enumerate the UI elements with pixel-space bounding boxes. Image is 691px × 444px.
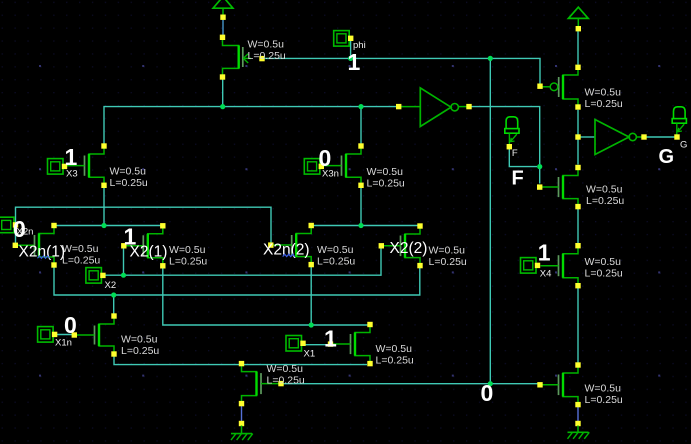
ground (right rail) <box>568 421 590 439</box>
svg-text:L=0.25u: L=0.25u <box>267 374 305 386</box>
svg-text:0: 0 <box>481 380 494 406</box>
wire X1 gate stub <box>306 344 331 346</box>
wire right rail NMOS3 to NMOS4 <box>577 288 579 363</box>
svg-text:W=0.5u: W=0.5u <box>585 382 622 394</box>
wire right rail PMOS drain to NMOS <box>577 110 579 165</box>
svg-text:L=0.25u: L=0.25u <box>429 256 467 268</box>
value label W/L of X2(1) <box>169 244 207 267</box>
svg-text:W=0.5u: W=0.5u <box>367 166 404 178</box>
wire X3 source down to row2 node <box>103 188 105 226</box>
wire X1n drain drop from output rail <box>113 295 115 314</box>
wire X1n gate stub <box>57 334 74 336</box>
svg-text:L=0.25u: L=0.25u <box>248 50 286 62</box>
svg-text:W=0.5u: W=0.5u <box>169 244 206 256</box>
probe F (LED) <box>505 117 519 150</box>
wire phi-bar vertical (node 0) <box>489 58 491 383</box>
power VDD right <box>568 7 588 31</box>
transistor X2n(2) body <box>268 223 314 267</box>
wire inverter U2 output to G probe <box>647 136 675 138</box>
svg-text:X4: X4 <box>540 268 552 279</box>
transistor X2n(1) body <box>13 223 57 268</box>
junction phi wire / phi-bar vertical <box>488 56 493 61</box>
wire phi gate wire (PMOS arrow gate to right column) <box>264 58 540 83</box>
junction row2 / X3 source <box>101 223 106 228</box>
value label W/L of N-X3n <box>367 166 405 190</box>
transistor P1 (phi PMOS) body <box>220 35 265 80</box>
value label W/L of N-X1n <box>121 334 159 358</box>
svg-text:W=0.5u: W=0.5u <box>317 244 354 256</box>
value label W/L of X2n(1) <box>62 243 100 266</box>
transistor N-X3 body <box>65 143 107 188</box>
wire X2n net rail <box>16 207 272 245</box>
svg-text:L=0.25u: L=0.25u <box>376 354 414 366</box>
wire right rail NMOS2 to NMOS3 <box>577 209 579 243</box>
svg-text:W=0.5u: W=0.5u <box>110 165 147 177</box>
junction phi wire tap <box>348 56 353 61</box>
value label W/L of N-X1 <box>376 343 414 367</box>
svg-text:X3: X3 <box>66 169 78 180</box>
transistor N3 (X4) body <box>541 243 581 288</box>
port phi <box>334 31 354 46</box>
svg-text:0: 0 <box>13 216 26 242</box>
pin pad: inverter U2 output <box>641 134 646 139</box>
port X3 <box>48 159 68 175</box>
svg-text:L=0.25u: L=0.25u <box>121 345 159 357</box>
junction X2 rail / X2(1) gate <box>121 273 126 278</box>
junction clock rail / phi-bar vertical <box>488 381 493 386</box>
svg-text:L=0.25u: L=0.25u <box>317 255 355 267</box>
svg-text:W=0.5u: W=0.5u <box>585 256 622 268</box>
svg-text:W=0.5u: W=0.5u <box>586 183 623 195</box>
value label W/L of X2(2) <box>429 244 467 267</box>
junction F probe / U1 output wire <box>537 164 542 169</box>
svg-text:W=0.5u: W=0.5u <box>376 343 413 355</box>
highlight squiggle under X2n(2) <box>283 254 295 256</box>
junction node A / PMOS drain <box>220 104 225 109</box>
ground (clock NMOS) <box>231 421 253 440</box>
port X1 <box>286 336 306 352</box>
svg-text:W=0.5u: W=0.5u <box>248 38 285 50</box>
wire X2n(2) source down <box>310 267 312 325</box>
value label W/L of P1 <box>248 38 286 62</box>
wire VDD-left stem to PMOS source <box>222 20 224 36</box>
svg-text:L=0.25u: L=0.25u <box>367 177 405 189</box>
svg-text:L=0.25u: L=0.25u <box>110 177 148 189</box>
svg-text:0: 0 <box>319 145 332 171</box>
inverter U2 <box>595 120 636 155</box>
wire row2 node left (X2n(1) to X2(1)) <box>54 225 163 227</box>
wire node A horizontal (X3/X3n drains to inverter input) <box>104 107 399 144</box>
svg-text:W=0.5u: W=0.5u <box>121 334 158 346</box>
transistor N2 (F gate) body <box>537 165 581 209</box>
svg-text:0: 0 <box>64 312 77 338</box>
svg-text:L=0.25u: L=0.25u <box>585 98 623 110</box>
wire output node rail (X2n(1)/X1n/X2(2) sources) <box>54 268 420 296</box>
highlight squiggle under X2n(1) <box>38 256 50 258</box>
wire PMOS phi drain down to node A <box>222 80 224 107</box>
wire X3n source down to row2 right <box>360 188 362 226</box>
wire phi port drop <box>350 40 352 58</box>
svg-text:L=0.25u: L=0.25u <box>585 394 623 406</box>
transistor X2(2) body <box>379 223 423 268</box>
transistor N-X1 body <box>328 322 373 367</box>
pin pad: inverter U1 output <box>466 104 471 109</box>
value label W/L of P2 <box>585 87 623 111</box>
port X2 <box>86 268 106 284</box>
svg-text:X2: X2 <box>105 280 117 291</box>
transistor N4 (bottom right) body <box>537 362 580 407</box>
svg-text:W=0.5u: W=0.5u <box>267 363 304 375</box>
transistor N-clock (phi2) body <box>239 361 284 406</box>
power VDD left <box>213 0 233 20</box>
svg-text:1: 1 <box>538 239 551 265</box>
value label W/L of N-clock <box>267 363 305 387</box>
svg-text:G: G <box>680 139 687 150</box>
wire X3n drain up to node A <box>360 107 362 144</box>
pin pad: inverter U1 input <box>396 104 401 109</box>
svg-text:L=0.25u: L=0.25u <box>586 195 624 207</box>
wire inverter U1 output to right column <box>472 107 540 184</box>
svg-text:X1n: X1n <box>55 337 72 348</box>
value label W/L of N-X3 <box>110 165 148 189</box>
svg-text:X1: X1 <box>304 349 316 360</box>
inverter U1 <box>420 88 458 127</box>
svg-text:W=0.5u: W=0.5u <box>585 87 622 99</box>
port X1n <box>38 327 58 343</box>
value label W/L of N2 <box>586 183 624 207</box>
wire inverter U2 input stub <box>581 136 596 138</box>
svg-text:F: F <box>512 148 518 159</box>
svg-text:X2(2): X2(2) <box>390 240 428 257</box>
probe G (LED) <box>672 107 686 140</box>
wire bottom source rail (X1n/clock NMOS/X1) <box>114 357 367 365</box>
svg-text:G: G <box>659 146 675 168</box>
svg-text:1: 1 <box>124 223 137 249</box>
value label W/L of X2n(2) <box>317 244 355 267</box>
value label W/L of N3 <box>585 256 623 280</box>
wire inverter U1 input stub <box>401 106 420 108</box>
junction X1 drain net / X2n(2) source <box>309 322 314 327</box>
wire row2 node right (X2n(2) to X2(2)) <box>311 225 420 227</box>
svg-text:1: 1 <box>324 325 337 351</box>
svg-text:L=0.25u: L=0.25u <box>169 255 207 267</box>
wire clock gate rail (to right NMOS gate) <box>284 383 538 385</box>
transistor P2 (right PMOS, bubble gate) body <box>537 65 580 110</box>
svg-text:L=0.25u: L=0.25u <box>585 267 623 279</box>
transistor X2(1) body <box>121 223 165 268</box>
wire X2(1) source down <box>163 269 368 326</box>
pin pad: inverter U2 input tap on right rail <box>575 134 580 139</box>
svg-text:W=0.5u: W=0.5u <box>429 244 466 256</box>
wire inverter U2 output stub <box>636 136 644 138</box>
port X2n <box>0 217 18 233</box>
junction row2 right / X3n source <box>358 223 363 228</box>
wire X2 net rail <box>103 249 381 276</box>
svg-text:1: 1 <box>65 144 78 170</box>
svg-text:F: F <box>512 168 524 190</box>
junction output rail / X1n drain <box>111 292 116 297</box>
wire X2(1) gate drop <box>123 248 125 275</box>
junction node A / X3n drain <box>358 104 363 109</box>
wire inverter U1 output stub <box>458 106 469 108</box>
port X3n <box>304 159 324 175</box>
wire right rail NMOS4 to ground <box>577 407 579 421</box>
transistor N-X3n body <box>321 143 363 188</box>
wire clock NMOS source to ground <box>241 406 243 421</box>
svg-text:1: 1 <box>348 49 361 75</box>
wire F probe tap <box>509 149 537 167</box>
port X4 <box>521 258 541 274</box>
wire VDD-right rail to PMOS <box>577 31 579 64</box>
svg-text:W=0.5u: W=0.5u <box>62 243 99 255</box>
transistor N-X1n body <box>72 313 117 356</box>
value label W/L of N4 <box>585 382 623 406</box>
svg-text:L=0.25u: L=0.25u <box>62 254 100 266</box>
